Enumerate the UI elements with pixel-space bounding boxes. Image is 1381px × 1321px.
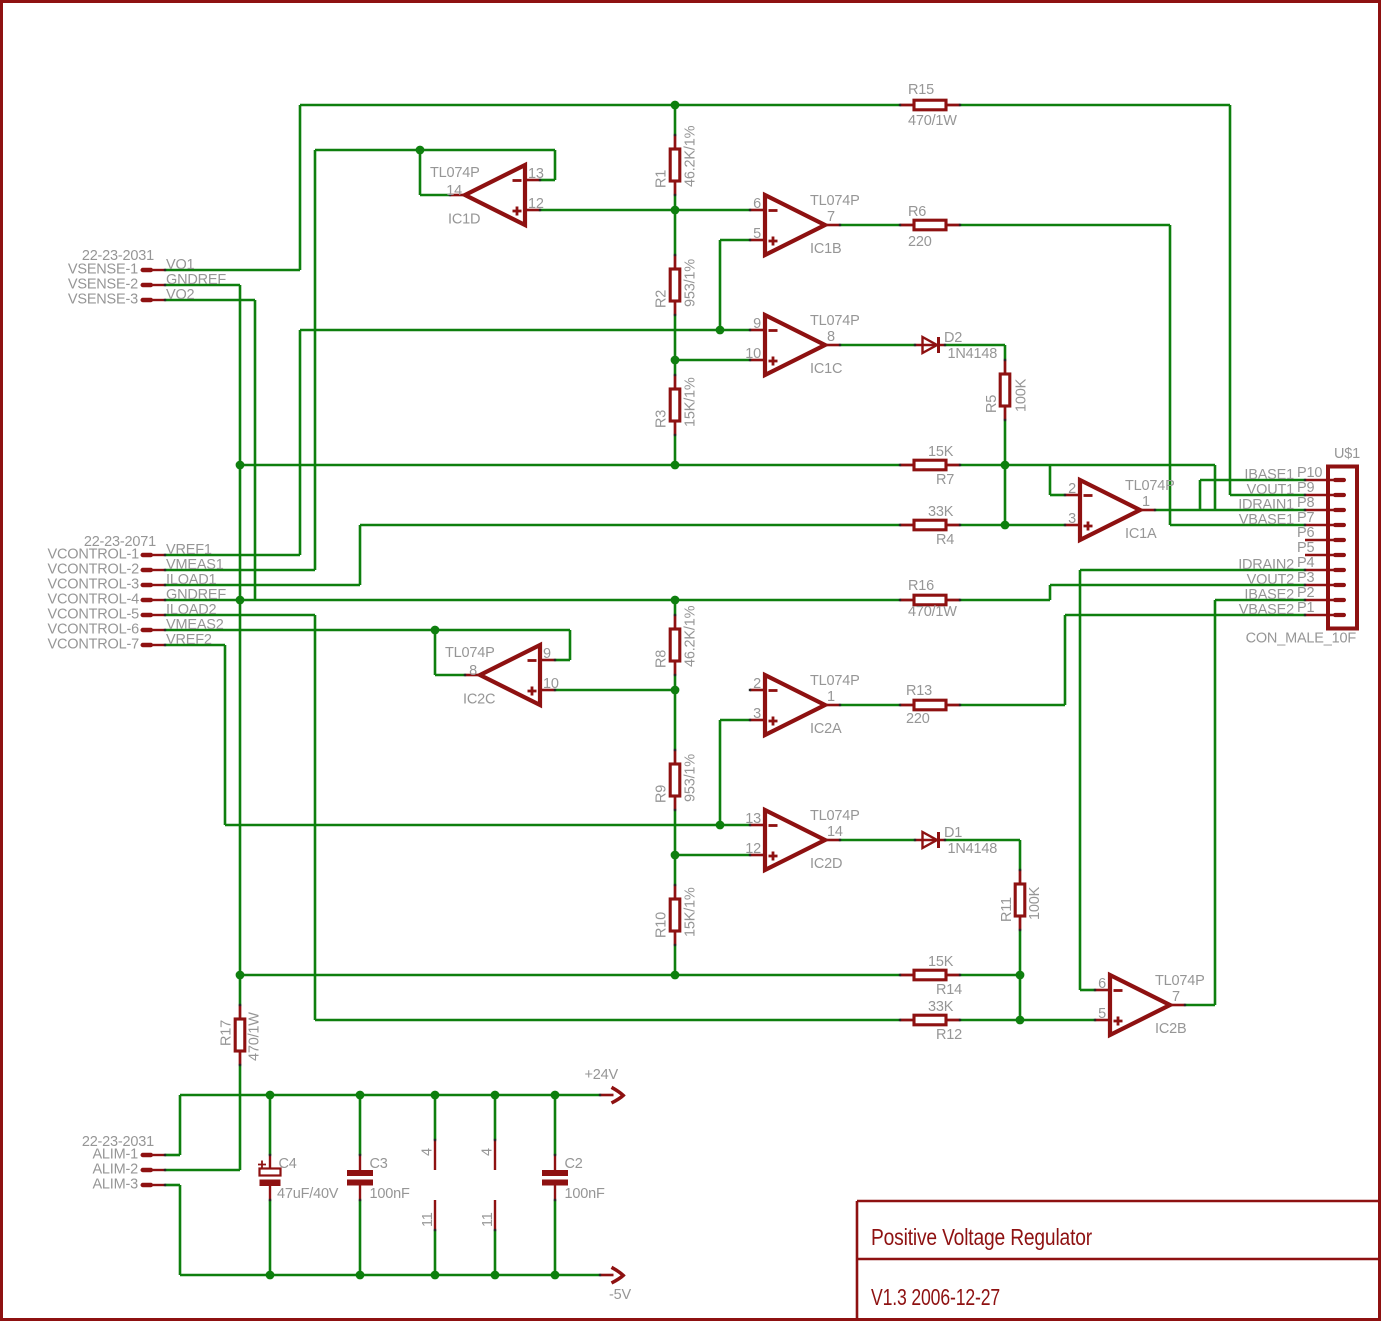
svg-text:VSENSE-2: VSENSE-2 (68, 277, 138, 293)
svg-text:15K/1%: 15K/1% (683, 887, 699, 937)
svg-text:3: 3 (1068, 511, 1076, 527)
svg-text:ILOAD1: ILOAD1 (166, 572, 217, 588)
svg-text:12: 12 (528, 196, 544, 212)
svg-text:R4: R4 (936, 532, 954, 548)
svg-text:P8: P8 (1297, 495, 1314, 511)
svg-text:IC1A: IC1A (1125, 526, 1157, 542)
svg-text:VCONTROL-7: VCONTROL-7 (48, 637, 140, 653)
svg-text:GNDREF: GNDREF (166, 587, 226, 603)
svg-text:R3: R3 (654, 410, 670, 428)
svg-text:R7: R7 (936, 472, 954, 488)
svg-text:1: 1 (1142, 494, 1150, 510)
svg-text:P6: P6 (1297, 525, 1314, 541)
svg-text:IC2D: IC2D (810, 856, 842, 872)
svg-text:P7: P7 (1297, 510, 1314, 526)
svg-text:TL074P: TL074P (445, 645, 495, 661)
svg-text:VSENSE-3: VSENSE-3 (68, 292, 138, 308)
svg-text:C2: C2 (565, 1156, 583, 1172)
svg-text:R8: R8 (654, 650, 670, 668)
svg-text:VMEAS2: VMEAS2 (166, 617, 224, 633)
svg-text:V1.3 2006-12-27: V1.3 2006-12-27 (871, 1284, 1000, 1310)
svg-text:TL074P: TL074P (1155, 973, 1205, 989)
svg-text:8: 8 (827, 329, 835, 345)
svg-text:ALIM-2: ALIM-2 (92, 1162, 138, 1178)
svg-text:3: 3 (753, 706, 761, 722)
svg-text:15K: 15K (928, 444, 954, 460)
svg-text:P2: P2 (1297, 585, 1314, 601)
svg-text:220: 220 (906, 711, 930, 727)
svg-text:R9: R9 (654, 785, 670, 803)
svg-text:R11: R11 (999, 897, 1015, 922)
svg-text:VSENSE-1: VSENSE-1 (68, 262, 138, 278)
svg-text:VMEAS1: VMEAS1 (166, 557, 224, 573)
svg-text:R16: R16 (908, 578, 934, 594)
svg-text:100nF: 100nF (565, 1186, 605, 1202)
svg-text:IC2A: IC2A (810, 721, 842, 737)
svg-text:VBASE1: VBASE1 (1239, 512, 1294, 528)
svg-text:-5V: -5V (609, 1287, 631, 1303)
svg-text:1: 1 (827, 689, 835, 705)
svg-text:47uF/40V: 47uF/40V (277, 1186, 339, 1202)
svg-text:7: 7 (827, 209, 835, 225)
svg-text:VREF1: VREF1 (166, 542, 212, 558)
svg-text:10: 10 (745, 346, 761, 362)
svg-text:C3: C3 (370, 1156, 388, 1172)
svg-text:TL074P: TL074P (1125, 478, 1175, 494)
svg-text:R2: R2 (654, 290, 670, 308)
svg-text:VO1: VO1 (166, 257, 195, 273)
svg-text:14: 14 (827, 824, 843, 840)
svg-text:VOUT2: VOUT2 (1247, 572, 1294, 588)
svg-text:33K: 33K (928, 999, 954, 1015)
svg-text:953/1%: 953/1% (683, 259, 699, 307)
svg-text:15K/1%: 15K/1% (683, 377, 699, 427)
svg-text:R12: R12 (936, 1027, 962, 1043)
svg-text:ALIM-1: ALIM-1 (92, 1147, 138, 1163)
svg-text:IC1C: IC1C (810, 361, 842, 377)
svg-text:1N4148: 1N4148 (948, 841, 998, 857)
svg-text:TL074P: TL074P (810, 808, 860, 824)
svg-text:46.2K/1%: 46.2K/1% (683, 125, 699, 187)
svg-text:VCONTROL-5: VCONTROL-5 (48, 607, 140, 623)
svg-text:7: 7 (1172, 989, 1180, 1005)
svg-text:P5: P5 (1297, 540, 1314, 556)
svg-text:TL074P: TL074P (810, 673, 860, 689)
svg-text:P4: P4 (1297, 555, 1314, 571)
svg-text:VCONTROL-2: VCONTROL-2 (48, 562, 140, 578)
svg-text:2: 2 (1068, 481, 1076, 497)
svg-text:+24V: +24V (585, 1067, 619, 1083)
svg-text:R5: R5 (984, 395, 1000, 413)
svg-text:TL074P: TL074P (810, 313, 860, 329)
svg-text:470/1W: 470/1W (908, 604, 957, 620)
svg-text:470/1W: 470/1W (908, 113, 957, 129)
svg-text:U$1: U$1 (1334, 446, 1360, 462)
svg-text:5: 5 (1098, 1006, 1106, 1022)
svg-text:VBASE2: VBASE2 (1239, 602, 1294, 618)
svg-text:VCONTROL-4: VCONTROL-4 (48, 592, 140, 608)
svg-text:IC1B: IC1B (810, 241, 841, 257)
svg-text:9: 9 (543, 646, 551, 662)
svg-text:953/1%: 953/1% (683, 754, 699, 802)
svg-text:IC2C: IC2C (463, 692, 495, 708)
svg-text:1N4148: 1N4148 (948, 346, 998, 362)
svg-text:9: 9 (753, 316, 761, 332)
svg-text:P3: P3 (1297, 570, 1314, 586)
svg-text:VCONTROL-3: VCONTROL-3 (48, 577, 140, 593)
svg-text:P9: P9 (1297, 480, 1314, 496)
svg-text:CON_MALE_10F: CON_MALE_10F (1246, 631, 1357, 647)
svg-text:VO2: VO2 (166, 287, 195, 303)
svg-text:470/1W: 470/1W (247, 1012, 263, 1061)
svg-text:VOUT1: VOUT1 (1247, 482, 1294, 498)
svg-text:2: 2 (753, 676, 761, 692)
svg-text:100nF: 100nF (370, 1186, 410, 1202)
svg-text:R17: R17 (219, 1020, 235, 1046)
svg-text:C4: C4 (279, 1156, 297, 1172)
svg-text:14: 14 (446, 183, 462, 199)
svg-text:8: 8 (469, 663, 477, 679)
svg-text:R1: R1 (654, 170, 670, 188)
svg-text:5: 5 (753, 226, 761, 242)
svg-text:GNDREF: GNDREF (166, 272, 226, 288)
svg-text:220: 220 (908, 234, 932, 250)
svg-text:R6: R6 (908, 204, 926, 220)
svg-text:P1: P1 (1297, 600, 1314, 616)
svg-text:D1: D1 (944, 825, 962, 841)
svg-text:33K: 33K (928, 504, 954, 520)
svg-text:VCONTROL-6: VCONTROL-6 (48, 622, 140, 638)
svg-text:6: 6 (753, 196, 761, 212)
svg-text:4: 4 (480, 1148, 496, 1156)
svg-text:IDRAIN2: IDRAIN2 (1238, 557, 1294, 573)
svg-text:P10: P10 (1297, 465, 1322, 481)
svg-text:100K: 100K (1027, 886, 1043, 920)
svg-text:13: 13 (528, 166, 544, 182)
svg-text:R10: R10 (654, 912, 670, 938)
svg-text:TL074P: TL074P (430, 165, 480, 181)
svg-text:11: 11 (480, 1212, 496, 1227)
svg-text:R15: R15 (908, 82, 934, 98)
svg-text:R13: R13 (906, 683, 932, 699)
svg-text:IBASE1: IBASE1 (1244, 467, 1294, 483)
svg-text:D2: D2 (944, 330, 962, 346)
svg-text:ILOAD2: ILOAD2 (166, 602, 217, 618)
svg-text:IBASE2: IBASE2 (1244, 587, 1294, 603)
svg-text:4: 4 (420, 1148, 436, 1156)
svg-text:IDRAIN1: IDRAIN1 (1238, 497, 1294, 513)
svg-text:10: 10 (543, 676, 559, 692)
svg-text:13: 13 (745, 811, 761, 827)
svg-text:ALIM-3: ALIM-3 (92, 1177, 138, 1193)
svg-text:IC2B: IC2B (1155, 1021, 1186, 1037)
svg-text:11: 11 (420, 1212, 436, 1227)
svg-text:VCONTROL-1: VCONTROL-1 (48, 547, 140, 563)
svg-text:Positive Voltage Regulator: Positive Voltage Regulator (871, 1224, 1092, 1250)
svg-text:R14: R14 (936, 982, 962, 998)
svg-text:6: 6 (1098, 976, 1106, 992)
svg-text:TL074P: TL074P (810, 193, 860, 209)
svg-text:46.2K/1%: 46.2K/1% (683, 605, 699, 667)
svg-text:15K: 15K (928, 954, 954, 970)
svg-text:VREF2: VREF2 (166, 632, 212, 648)
svg-text:12: 12 (745, 841, 761, 857)
svg-text:IC1D: IC1D (448, 212, 480, 228)
svg-text:100K: 100K (1014, 378, 1030, 412)
